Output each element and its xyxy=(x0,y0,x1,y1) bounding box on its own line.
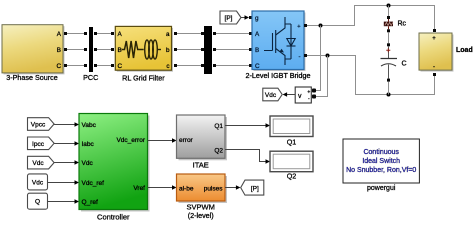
svg-text:B: B xyxy=(118,47,122,54)
goto tag Vdc xyxy=(263,88,282,101)
svg-text:[P]: [P] xyxy=(225,15,233,22)
svg-text:Ipcc: Ipcc xyxy=(32,141,45,148)
2-level IGBT bridge block U1 xyxy=(246,11,311,80)
wire phase b filter to bus B2 xyxy=(177,49,201,51)
svg-text:RL Grid Filter: RL Grid Filter xyxy=(122,74,165,83)
svg-text:Vabc: Vabc xyxy=(82,122,97,129)
bridge output port + xyxy=(304,24,307,27)
svg-text:+: + xyxy=(307,90,310,96)
from tag Ipcc xyxy=(27,137,54,150)
wire phase a filter to bus B2 xyxy=(177,33,201,35)
svg-text:ITAE: ITAE xyxy=(193,160,209,169)
wire SVPWM pulses to goto P xyxy=(225,187,236,189)
svg-text:Vdc_ref: Vdc_ref xyxy=(82,180,105,187)
wire DC+ bridge to top rail xyxy=(307,6,435,30)
wire Ipcc to controller xyxy=(54,143,75,145)
svg-text:Rc: Rc xyxy=(398,21,407,28)
port A of source xyxy=(64,32,67,35)
wire phase C PCC to filter xyxy=(97,65,111,67)
ITAE block xyxy=(177,115,228,169)
svg-text:B: B xyxy=(255,47,259,54)
capacitor C branch xyxy=(381,43,407,94)
svg-text:Controller: Controller xyxy=(97,213,130,222)
wire phase A source to PCC xyxy=(67,33,84,35)
svg-text:a: a xyxy=(166,31,170,38)
svg-text:No Snubber, Ron,Vf=0: No Snubber, Ron,Vf=0 xyxy=(346,167,416,174)
svg-text:Continuous: Continuous xyxy=(363,149,399,156)
wire phase A PCC to filter xyxy=(97,33,111,35)
load - port xyxy=(433,73,436,76)
bridge output port - xyxy=(304,54,307,57)
wire Vdc_error controller to ITAE xyxy=(148,140,173,142)
svg-text:al-be: al-be xyxy=(179,185,194,192)
bridge input ports g A B C xyxy=(249,16,252,19)
voltmeter - input port xyxy=(312,95,316,99)
svg-text:Vdc: Vdc xyxy=(265,92,277,99)
B2 left ports xyxy=(201,32,204,35)
PCC right ports xyxy=(94,32,97,35)
svg-text:Q_ref: Q_ref xyxy=(82,199,98,206)
diode icon inside bridge xyxy=(287,24,296,59)
svg-text:C: C xyxy=(56,63,61,70)
wire phase B PCC to filter xyxy=(97,49,111,51)
wire Vpcc to controller xyxy=(54,124,75,126)
from tag [P] gate xyxy=(220,11,241,24)
port B of source xyxy=(64,48,67,51)
svg-text:Q1: Q1 xyxy=(214,123,223,130)
wire Vref controller to SVPWM xyxy=(148,187,173,189)
filter output ports xyxy=(174,32,177,35)
svg-text:Ideal Switch: Ideal Switch xyxy=(362,158,400,165)
junction DC- to voltmeter xyxy=(326,54,330,58)
goto tag [P] xyxy=(241,180,264,195)
svg-text:+: + xyxy=(432,36,436,42)
wire phase C B2 to bridge xyxy=(216,65,249,67)
svg-text:-: - xyxy=(433,65,435,71)
svg-text:2-Level IGBT Bridge: 2-Level IGBT Bridge xyxy=(246,71,311,80)
svg-text:C: C xyxy=(118,63,123,70)
svg-text:3-Phase Source: 3-Phase Source xyxy=(6,73,58,82)
resistor Rc branch xyxy=(384,6,407,33)
svg-text:Vdc: Vdc xyxy=(32,179,44,186)
SVPWM block xyxy=(177,174,228,220)
svg-text:Iabc: Iabc xyxy=(82,141,95,148)
svg-text:Q2: Q2 xyxy=(287,172,297,181)
svg-text:PCC: PCC xyxy=(83,73,98,82)
resistor R icon inside filter xyxy=(122,41,144,58)
svg-text:pulses: pulses xyxy=(204,185,224,192)
wire Vdc to controller xyxy=(54,162,75,164)
bus bar PCC xyxy=(83,27,98,82)
svg-text:Q: Q xyxy=(35,199,40,206)
wire DC- bridge to bottom rail xyxy=(307,56,435,95)
voltmeter + input port xyxy=(312,89,316,93)
controller block xyxy=(79,114,150,222)
wire phase B source to PCC xyxy=(67,49,84,51)
wire Q_ref to controller xyxy=(48,201,75,203)
powergui block xyxy=(343,139,419,192)
junction top rail to Rc branch xyxy=(387,4,391,8)
svg-text:Vdc_error: Vdc_error xyxy=(116,137,145,144)
svg-text:Q1: Q1 xyxy=(287,137,297,146)
from tag Vdc xyxy=(27,156,54,169)
svg-text:(2-level): (2-level) xyxy=(188,211,214,220)
wire voltmeter + sense xyxy=(316,26,321,91)
wire phase c filter to bus B2 xyxy=(177,65,201,67)
svg-text:Load: Load xyxy=(456,47,473,54)
wire Rc to C xyxy=(388,32,390,43)
wire phase B B2 to bridge xyxy=(216,49,249,51)
from tag Vpcc xyxy=(27,118,54,131)
svg-text:b: b xyxy=(166,47,170,54)
3-phase source block V1 xyxy=(2,25,65,82)
svg-text:+: + xyxy=(297,24,300,30)
PCC left ports xyxy=(84,32,87,35)
voltmeter V dc xyxy=(295,87,311,103)
svg-text:c: c xyxy=(166,63,169,70)
wire Vdc_ref to controller xyxy=(48,182,75,184)
load block xyxy=(419,33,473,72)
svg-text:C: C xyxy=(402,60,407,67)
inductor L icon inside filter xyxy=(145,40,161,59)
svg-text:B: B xyxy=(57,47,61,54)
wire phase A B2 to bridge xyxy=(216,33,249,35)
wire phase C source to PCC xyxy=(67,65,84,67)
wire voltmeter - sense xyxy=(316,56,328,97)
svg-text:powergui: powergui xyxy=(367,185,396,192)
constant block Q_ref xyxy=(28,193,48,209)
svg-text:error: error xyxy=(179,137,194,144)
IGBT icon inside bridge xyxy=(264,17,291,65)
svg-text:v: v xyxy=(298,93,302,100)
filter input ports xyxy=(111,32,114,35)
svg-text:Vdc: Vdc xyxy=(32,160,44,167)
constant block Vdc_ref xyxy=(28,174,48,190)
svg-text:Vpcc: Vpcc xyxy=(31,122,46,129)
RL grid filter block xyxy=(115,26,173,82)
junction bottom rail to C branch xyxy=(387,93,391,97)
bus bar B2 xyxy=(204,26,212,74)
B2 right ports xyxy=(213,32,216,35)
wire voltmeter output to Vdc goto xyxy=(287,94,295,96)
svg-text:C: C xyxy=(255,63,260,70)
wire ITAE Q1 to display Q1 xyxy=(225,125,266,127)
load + port xyxy=(433,29,436,32)
port C of source xyxy=(64,64,67,67)
wire gate from tag to bridge g xyxy=(241,17,245,19)
svg-text:-: - xyxy=(299,54,301,60)
wire ITAE Q2 to display Q2 xyxy=(225,150,266,162)
svg-text:Q2: Q2 xyxy=(214,147,223,154)
svg-text:g: g xyxy=(255,15,259,22)
svg-text:Vref: Vref xyxy=(133,185,145,192)
svg-text:Vdc: Vdc xyxy=(82,160,94,167)
display Q2 xyxy=(270,151,313,180)
display Q1 xyxy=(270,116,313,146)
junction DC+ to voltmeter xyxy=(319,24,323,28)
svg-text:[P]: [P] xyxy=(251,185,259,192)
